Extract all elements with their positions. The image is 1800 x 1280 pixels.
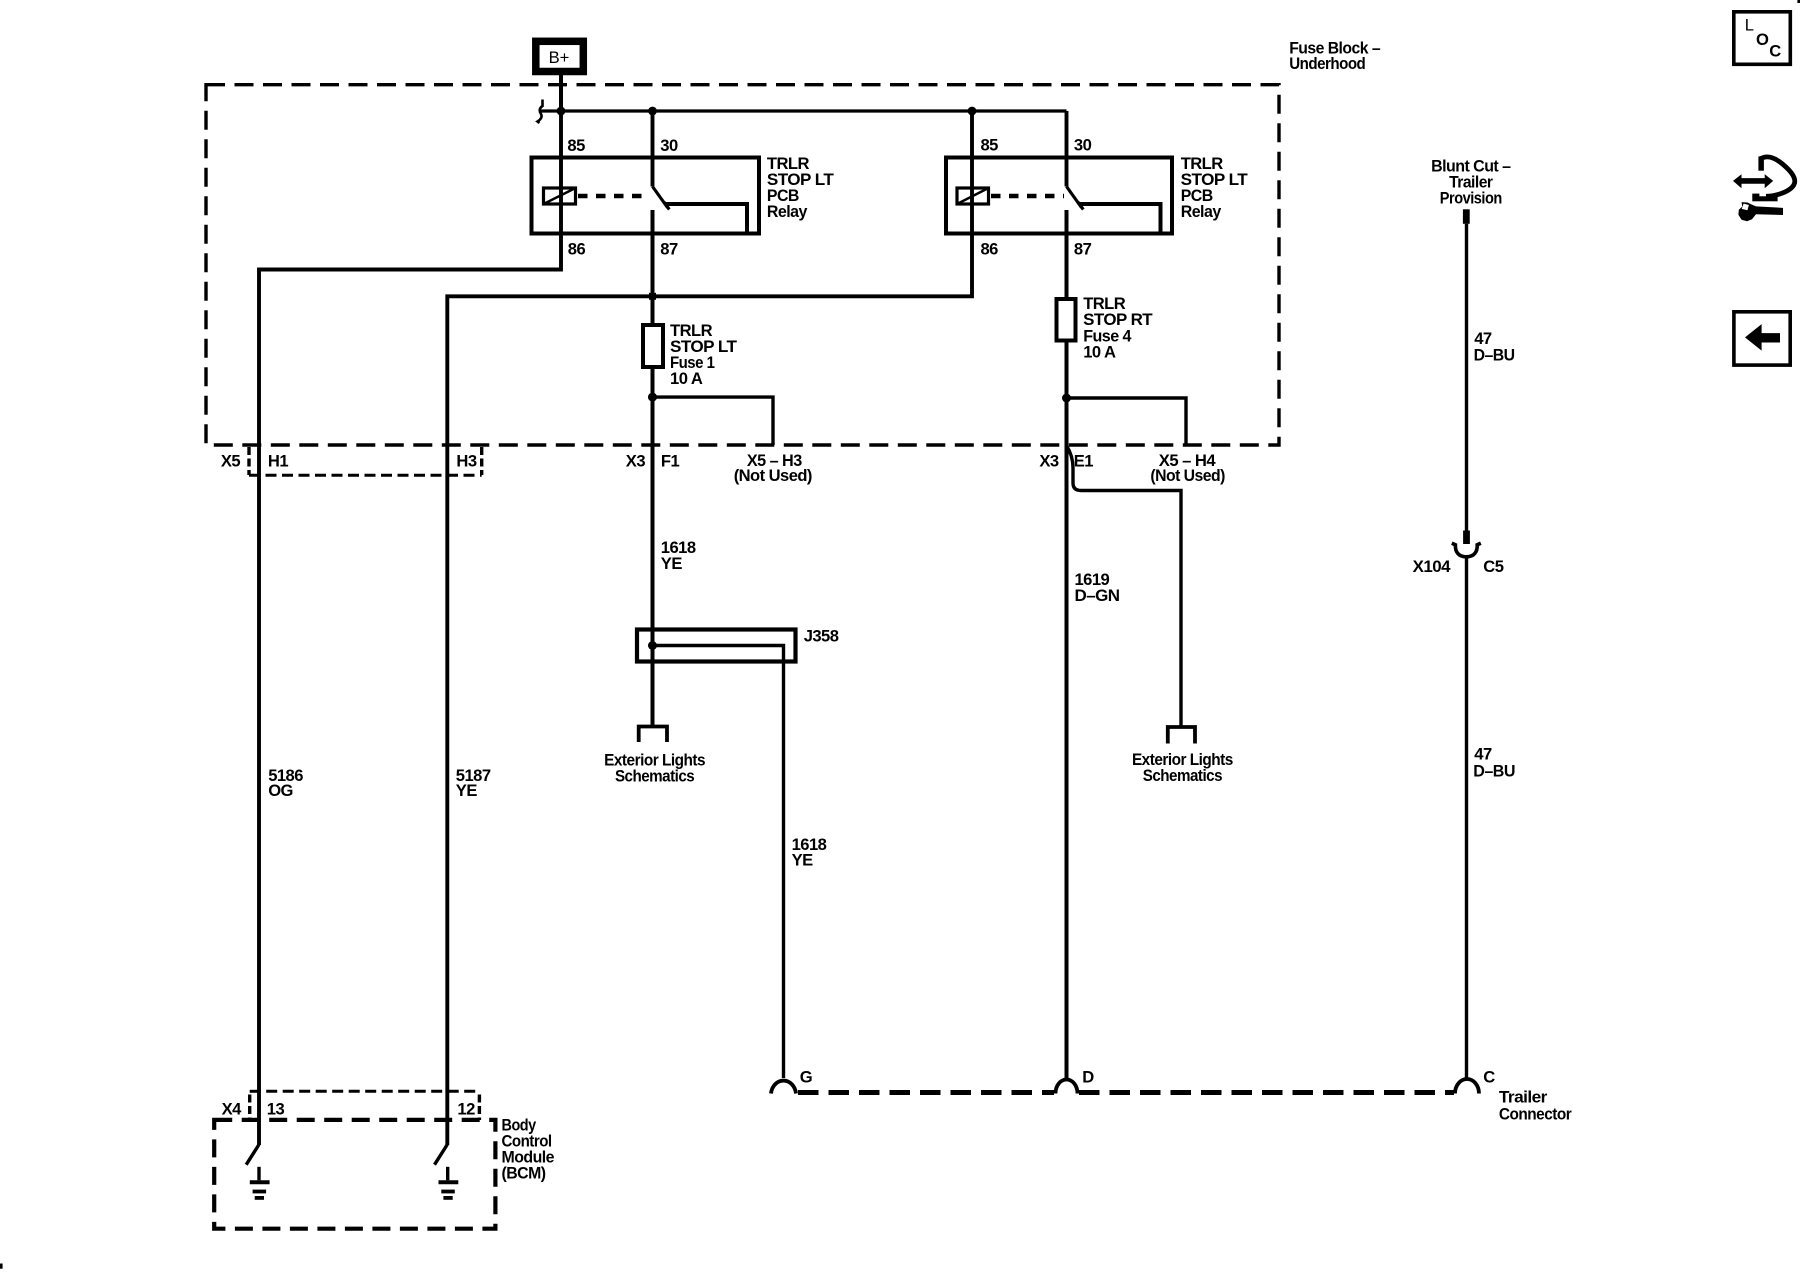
svg-text:10 A: 10 A bbox=[670, 369, 703, 388]
trailer connector pin G arc bbox=[771, 1081, 796, 1094]
relay K2 coil bbox=[957, 188, 989, 204]
wire from Fuse 4 down through X3-E1 to trailer connector D bbox=[1065, 341, 1069, 1079]
svg-text:H3: H3 bbox=[456, 452, 476, 471]
connector X3 E1 label bbox=[1039, 452, 1093, 471]
junction dot at right relay 85 tap bbox=[968, 107, 977, 116]
svg-text:12: 12 bbox=[457, 1100, 475, 1119]
wire B+ drop to bus bbox=[559, 75, 563, 111]
label Exterior Lights Schematics left bbox=[604, 750, 705, 785]
relay K1 actuation dashed link bbox=[578, 194, 650, 199]
svg-text:L: L bbox=[1745, 15, 1754, 34]
wire label 1618 YE upper bbox=[661, 538, 696, 573]
wire left relay 85 coil feed down through coil, pin 86 out to left run bbox=[259, 111, 561, 1145]
connector X4 pin labels bbox=[222, 1100, 475, 1119]
wire label 5186 OG bbox=[268, 766, 303, 800]
svg-text:86: 86 bbox=[981, 240, 999, 259]
svg-text:D: D bbox=[1082, 1068, 1094, 1087]
connector X104 C5 male pin bbox=[1463, 531, 1470, 545]
relay K2 switch blade 30-87 bbox=[1067, 187, 1084, 210]
relay K2 fixed contact rail bbox=[1079, 204, 1161, 234]
wire label 5187 YE bbox=[456, 766, 491, 800]
svg-text:YE: YE bbox=[661, 554, 683, 573]
svg-text:E1: E1 bbox=[1074, 452, 1094, 471]
relay K2 actuation dashed link bbox=[991, 194, 1064, 199]
wire label 47 D-BU lower bbox=[1473, 744, 1515, 780]
wire branch below E1 to right fork bbox=[1067, 446, 1182, 728]
wire from J358 splice out to trailer connector G bbox=[653, 646, 784, 1079]
svg-text:Underhood: Underhood bbox=[1289, 54, 1365, 73]
svg-text:13: 13 bbox=[267, 1100, 285, 1119]
svg-text:(Not Used): (Not Used) bbox=[734, 466, 812, 485]
ground symbol right bbox=[439, 1167, 459, 1198]
relay K1 coil bbox=[544, 188, 576, 204]
svg-text:C: C bbox=[1769, 42, 1781, 61]
svg-text:D–BU: D–BU bbox=[1474, 345, 1515, 364]
BCM switch blade right (pin 12 driver) bbox=[435, 1145, 448, 1165]
service/repair icon (arrows and wrench) bbox=[1733, 156, 1795, 221]
wire label 47 D-BU upper bbox=[1474, 329, 1515, 364]
svg-text:30: 30 bbox=[660, 136, 678, 155]
bus wire from B+ to relays bbox=[540, 109, 1067, 112]
fuse F4 TRLR STOP RT Fuse 4 10A bbox=[1057, 299, 1076, 341]
label Exterior Lights Schematics right bbox=[1132, 750, 1233, 785]
relay K1 name label bbox=[767, 154, 834, 221]
wire label 1618 YE lower bbox=[792, 835, 827, 869]
svg-text:B+: B+ bbox=[549, 48, 570, 67]
trailer connector dashed line bbox=[798, 1090, 1454, 1095]
wire label 1619 D-GN bbox=[1075, 570, 1120, 605]
junction dot in J358 bbox=[648, 641, 657, 650]
junction dot at B+/bus bbox=[557, 107, 566, 116]
svg-text:Relay: Relay bbox=[1181, 202, 1222, 221]
connector X5-H4 not used label bbox=[1150, 451, 1225, 485]
fuse F1 TRLR STOP LT Fuse 1 10A bbox=[643, 325, 663, 367]
svg-text:F1: F1 bbox=[661, 451, 680, 470]
svg-text:C: C bbox=[1483, 1068, 1495, 1087]
relay K1 TRLR STOP LT PCB Relay (left) box bbox=[532, 158, 760, 234]
svg-text:YE: YE bbox=[456, 781, 478, 800]
svg-text:H1: H1 bbox=[268, 452, 288, 471]
ground symbol left bbox=[250, 1167, 270, 1198]
back arrow legend box right bbox=[1734, 312, 1790, 365]
connector X104 labels bbox=[1413, 557, 1504, 576]
trailer connector pin labels bbox=[800, 1068, 1495, 1087]
svg-text:YE: YE bbox=[792, 850, 814, 869]
relay K2 pin labels bbox=[981, 136, 1092, 259]
connector X5 pin labels bbox=[221, 452, 477, 471]
svg-text:X3: X3 bbox=[1039, 452, 1059, 471]
svg-text:(BCM): (BCM) bbox=[502, 1164, 546, 1183]
svg-text:X3: X3 bbox=[626, 451, 646, 470]
svg-text:J358: J358 bbox=[804, 627, 839, 646]
svg-text:Schematics: Schematics bbox=[615, 766, 695, 785]
svg-text:OG: OG bbox=[268, 781, 293, 800]
svg-text:Schematics: Schematics bbox=[1143, 766, 1223, 785]
wire right relay 30 pivot feed bbox=[1065, 111, 1069, 187]
connector X3 F1 label bbox=[626, 451, 680, 470]
trailer connector pin D arc bbox=[1056, 1080, 1078, 1094]
svg-text:Relay: Relay bbox=[767, 202, 808, 221]
svg-text:87: 87 bbox=[660, 239, 678, 258]
connector row X5 dashed outline bbox=[249, 447, 482, 475]
blunt cut trailer provision label bbox=[1431, 157, 1511, 208]
svg-text:C5: C5 bbox=[1483, 557, 1503, 576]
relay K1 switch blade 30-87 bbox=[653, 187, 670, 210]
svg-text:10 A: 10 A bbox=[1083, 342, 1116, 361]
LOC legend box top right bbox=[1734, 12, 1791, 65]
svg-text:Provision: Provision bbox=[1440, 189, 1502, 208]
wire right relay 85 down, pin 86 out to left run toward BCM bbox=[447, 111, 972, 1145]
trailer connector pin C arc bbox=[1455, 1079, 1479, 1094]
label Trailer Connector bbox=[1499, 1087, 1572, 1123]
scan artifact bottom left corner bbox=[0, 1264, 3, 1269]
svg-text:X4: X4 bbox=[222, 1100, 243, 1119]
svg-text:87: 87 bbox=[1074, 240, 1092, 259]
crossing bulge where left 87 wire crosses right 86 run bbox=[649, 293, 656, 300]
BCM switch blade left (pin 13 driver) bbox=[246, 1145, 259, 1165]
svg-text:30: 30 bbox=[1074, 136, 1092, 155]
junction dot below Fuse 1 bbox=[648, 393, 657, 402]
relay K2 name label bbox=[1181, 154, 1248, 221]
body control module BCM dashed box bbox=[214, 1120, 495, 1229]
splice J358 box bbox=[637, 630, 796, 662]
svg-text:(Not Used): (Not Used) bbox=[1150, 466, 1225, 485]
junction dot at left relay 30 tap bbox=[648, 107, 657, 116]
wire continuation squiggle at bus left end bbox=[538, 100, 543, 124]
svg-text:G: G bbox=[800, 1068, 812, 1087]
junction dot below Fuse 4 bbox=[1062, 394, 1071, 403]
svg-text:O: O bbox=[1756, 30, 1769, 49]
label Body Control Module (BCM) bbox=[502, 1115, 555, 1182]
connector row X4 dashed outline bbox=[250, 1091, 480, 1120]
relay K1 pin labels bbox=[567, 136, 678, 258]
svg-text:X5: X5 bbox=[221, 452, 241, 471]
svg-text:86: 86 bbox=[568, 239, 586, 258]
wire right 87 from relay to Fuse 4 bbox=[1065, 210, 1069, 299]
wire left relay 30 pivot feed bbox=[651, 111, 655, 187]
battery feed B+ symbol bbox=[536, 41, 584, 71]
svg-text:85: 85 bbox=[567, 136, 585, 155]
connector X104 C5 female cup bbox=[1452, 543, 1481, 557]
relay K2 TRLR STOP LT PCB Relay (right) box bbox=[946, 158, 1172, 234]
off-page fork connector right (Exterior Lights) bbox=[1168, 727, 1195, 744]
connector X5-H3 not used label bbox=[734, 451, 812, 485]
svg-text:X104: X104 bbox=[1413, 557, 1452, 576]
fuse F4 label bbox=[1083, 294, 1152, 361]
wire blunt cut to X104 bbox=[1465, 224, 1468, 531]
wire left 87 from relay to Fuse 1 bbox=[651, 210, 655, 325]
relay K1 fixed contact rail bbox=[665, 204, 747, 234]
fuse F1 label bbox=[670, 321, 737, 388]
scan artifact top right corner bbox=[1797, 0, 1800, 3]
wire branch to X5-H3 not used bbox=[653, 397, 774, 445]
svg-text:85: 85 bbox=[981, 136, 999, 155]
svg-text:D–BU: D–BU bbox=[1473, 762, 1515, 781]
wire X104 to trailer connector C bbox=[1465, 557, 1468, 1079]
svg-text:Connector: Connector bbox=[1499, 1104, 1572, 1123]
svg-text:D–GN: D–GN bbox=[1075, 586, 1120, 605]
fuse block underhood dashed box bbox=[206, 85, 1279, 445]
wire from Fuse 1 down through X3-F1 to J358 and fork bbox=[651, 367, 655, 726]
blunt cut symbol bbox=[1463, 209, 1470, 224]
wire branch to X5-H4 not used bbox=[1067, 398, 1187, 445]
off-page fork connector left (Exterior Lights) bbox=[639, 727, 667, 743]
label Fuse Block - Underhood bbox=[1289, 39, 1380, 73]
